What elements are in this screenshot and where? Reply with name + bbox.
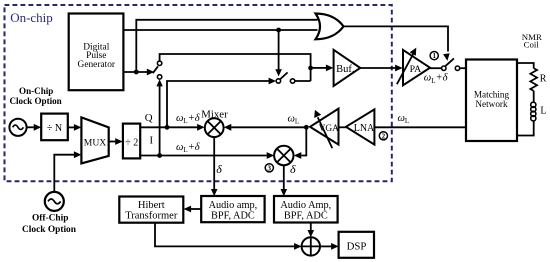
- svg-text:Off-Chip: Off-Chip: [32, 214, 68, 224]
- junction at Buf feed: [308, 66, 313, 71]
- wire source to divider N: [27, 126, 34, 128]
- svg-text:Audio amp,: Audio amp,: [209, 200, 258, 211]
- svg-text:δ: δ: [216, 162, 222, 176]
- wire R to L: [533, 91, 535, 103]
- label circled 1: [430, 52, 438, 61]
- wire Buf to PA: [360, 67, 395, 69]
- digital pulse generator U1: [69, 14, 124, 91]
- svg-text:2: 2: [382, 132, 386, 140]
- wire B1 to hilbert: [191, 208, 201, 210]
- wire DPG lower output to switch SW1: [123, 71, 147, 73]
- svg-text:Buf.: Buf.: [336, 64, 354, 75]
- buffer Buf: [334, 50, 361, 86]
- svg-text:DSP: DSP: [347, 240, 367, 252]
- off-chip clock source: [45, 192, 64, 211]
- svg-text:R: R: [540, 73, 547, 84]
- wire VGA out to mixer M1: [231, 126, 306, 128]
- junction on DPG upper output: [276, 28, 281, 33]
- junction on Q line: [165, 125, 170, 130]
- label circled 3: [265, 164, 273, 173]
- svg-text:Hibert: Hibert: [138, 200, 165, 211]
- svg-text:1: 1: [432, 52, 436, 60]
- switch SW1 pulse/CW select: [153, 61, 163, 86]
- svg-text:I: I: [150, 135, 154, 147]
- svg-text:Transformer: Transformer: [125, 211, 178, 222]
- power amp PA: [397, 48, 430, 86]
- svg-text:Network: Network: [475, 99, 508, 109]
- svg-text:÷ 2: ÷ 2: [125, 137, 138, 148]
- on-chip dashed boundary: [5, 5, 392, 181]
- svg-text:ωL+δ: ωL+δ: [176, 113, 201, 125]
- svg-text:On-Chip: On-Chip: [19, 86, 53, 96]
- wire PA output to T/R switch: [430, 67, 442, 69]
- wire arrow into Buf: [311, 67, 326, 69]
- svg-text:On-chip: On-chip: [10, 10, 53, 25]
- wire B2 down to summer: [310, 223, 312, 231]
- wire SW1 top contact to Buf feed line: [160, 54, 311, 81]
- wire VGA output down to mixer M2: [301, 127, 306, 155]
- wire L to matching network bottom: [517, 121, 534, 136]
- wire OR output to T/R switch: [344, 26, 449, 51]
- wire switch SW2 control drop: [278, 30, 280, 70]
- svg-text:Audio Amp,: Audio Amp,: [280, 200, 331, 211]
- wire SW3 to matching network: [460, 67, 466, 69]
- lna A2: [346, 109, 375, 144]
- switch SW3 T/R: [442, 58, 460, 70]
- wire DPG upper output to OR gate lower input: [123, 29, 317, 31]
- svg-text:÷ N: ÷ N: [47, 123, 62, 134]
- or gate G1: [316, 14, 344, 40]
- wire SW2 contact to Buf feed riser: [295, 80, 311, 82]
- vga A1: [310, 109, 339, 149]
- wire LNA to VGA: [339, 126, 346, 128]
- divider ÷2: [123, 124, 140, 159]
- wire matching network to LNA: [374, 126, 466, 128]
- svg-text:ωL+δ: ωL+δ: [424, 73, 449, 85]
- wire hilbert down to summer: [155, 223, 294, 247]
- svg-text:Generator: Generator: [78, 60, 116, 70]
- svg-text:BPF, ADC: BPF, ADC: [211, 211, 255, 222]
- svg-text:PA: PA: [410, 64, 422, 75]
- svg-text:ωL+δ: ωL+δ: [176, 142, 201, 154]
- clock source on-chip: [9, 119, 26, 136]
- summer S1: [302, 237, 320, 255]
- audio chain box B2: [274, 196, 338, 223]
- matching network box: [466, 60, 517, 142]
- mux MUX: [81, 117, 108, 163]
- svg-text:δ: δ: [290, 162, 296, 176]
- wire SW1 bottom contact down to I line: [159, 82, 161, 156]
- resistor R: [530, 68, 537, 91]
- svg-text:Coil: Coil: [524, 40, 540, 50]
- junction at VGA output: [304, 125, 309, 130]
- wire off-chip source to MUX: [54, 155, 74, 192]
- svg-text:3: 3: [268, 164, 272, 172]
- wire Q line to top mixer: [140, 126, 197, 128]
- wire summer to DSP: [320, 245, 331, 247]
- switch SW2: [269, 72, 295, 84]
- mixer M1 (Q): [201, 109, 228, 137]
- wire MUX to divider 2: [109, 141, 116, 143]
- junction on DPG lower output: [134, 70, 139, 75]
- wire divider N to MUX: [68, 126, 74, 128]
- svg-text:MUX: MUX: [84, 137, 106, 148]
- svg-text:Clock Option: Clock Option: [22, 225, 77, 235]
- wire I line to bottom mixer: [140, 155, 267, 157]
- wire Q riser to switch SW2: [167, 81, 272, 127]
- wire matching network to coil top: [517, 63, 534, 68]
- wire mixer M2 IF output: [283, 165, 285, 189]
- hilbert transformer box: [119, 197, 183, 223]
- dsp box: [339, 232, 374, 258]
- label circled 2: [379, 132, 387, 141]
- junction on I line: [157, 153, 162, 158]
- audio chain box B1: [201, 196, 264, 222]
- divider ÷N: [41, 114, 68, 141]
- wire riser from junction to OR gate upper input: [136, 20, 317, 72]
- svg-text:L: L: [540, 106, 546, 117]
- svg-text:LNA: LNA: [354, 123, 375, 134]
- wire mixer M1 IF output: [213, 137, 215, 189]
- svg-text:Matching: Matching: [474, 89, 510, 99]
- svg-text:Clock Option: Clock Option: [9, 96, 61, 106]
- svg-text:Q: Q: [145, 112, 153, 124]
- svg-text:BPF, ADC: BPF, ADC: [284, 211, 328, 222]
- mixer M2 (I): [274, 146, 293, 165]
- inductor L: [531, 102, 536, 121]
